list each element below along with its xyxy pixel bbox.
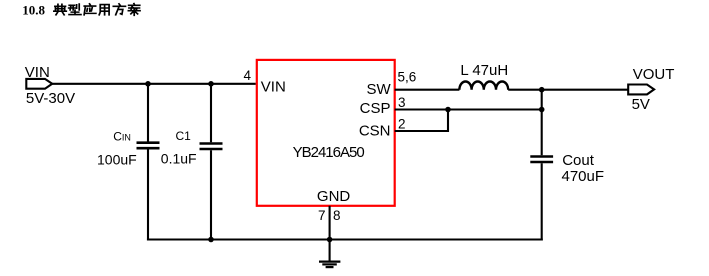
svg-text:YB2416A50: YB2416A50: [293, 144, 365, 161]
op-amp U1 IC body YB2416A50: [257, 60, 395, 206]
svg-text:SW: SW: [367, 81, 392, 98]
svg-text:VIN: VIN: [25, 64, 50, 81]
VIN input connector: [26, 79, 52, 89]
inductor L 47uH: [459, 81, 508, 89]
node junction dot GND on rail: [327, 237, 333, 243]
svg-text:C1: C1: [176, 129, 192, 143]
char 用: [99, 5, 109, 15]
svg-text:CSP: CSP: [360, 100, 391, 117]
VOUT output connector: [628, 85, 654, 95]
char 方: [113, 4, 125, 15]
bottom ground rail wire: [147, 238, 543, 240]
node junction dot C1 on rail: [208, 237, 214, 243]
wire output node down to Cout: [541, 90, 543, 156]
node junction dot C1: [208, 81, 214, 87]
svg-text:10.8: 10.8: [22, 2, 45, 17]
title CJK 典型应用方案 (drawn as vector strokes): [54, 4, 140, 16]
char 型: [69, 4, 81, 14]
svg-text:8: 8: [333, 208, 341, 223]
svg-text:CIN: CIN: [113, 130, 131, 144]
svg-text:3: 3: [398, 95, 406, 110]
svg-text:0.1uF: 0.1uF: [161, 151, 197, 167]
wire SW to inductor: [395, 89, 460, 91]
capacitor CIN: [147, 84, 149, 142]
svg-text:CSN: CSN: [359, 122, 391, 139]
capacitor Cout: [530, 155, 553, 158]
svg-text:5V: 5V: [632, 96, 650, 113]
svg-text:4: 4: [243, 68, 251, 83]
svg-text:5,6: 5,6: [398, 70, 417, 85]
svg-text:2: 2: [398, 117, 406, 132]
char 案: [128, 4, 140, 16]
wire GND pin down: [329, 206, 331, 261]
capacitor C1: [210, 84, 212, 143]
svg-text:L 47uH: L 47uH: [460, 62, 508, 79]
svg-text:5V-30V: 5V-30V: [26, 90, 75, 107]
svg-text:Cout: Cout: [562, 152, 595, 169]
node junction dot SW output: [539, 87, 545, 93]
svg-text:VOUT: VOUT: [633, 66, 675, 83]
svg-text:470uF: 470uF: [562, 168, 605, 185]
wire CSP: [395, 108, 542, 110]
svg-text:VIN: VIN: [261, 79, 286, 96]
wire CSN: [395, 110, 448, 132]
char 典: [54, 4, 66, 14]
wire inductor to VOUT: [508, 89, 628, 91]
ground symbol: [319, 261, 340, 263]
svg-text:7: 7: [318, 208, 326, 223]
wire VIN to IC pin4: [52, 83, 256, 85]
svg-text:100uF: 100uF: [97, 152, 137, 168]
char 应: [84, 4, 96, 15]
svg-text:GND: GND: [317, 188, 351, 205]
node junction dot CSP/CSN: [445, 107, 451, 113]
node junction dot CIN: [145, 81, 151, 87]
node junction dot CSP to output: [539, 107, 545, 113]
